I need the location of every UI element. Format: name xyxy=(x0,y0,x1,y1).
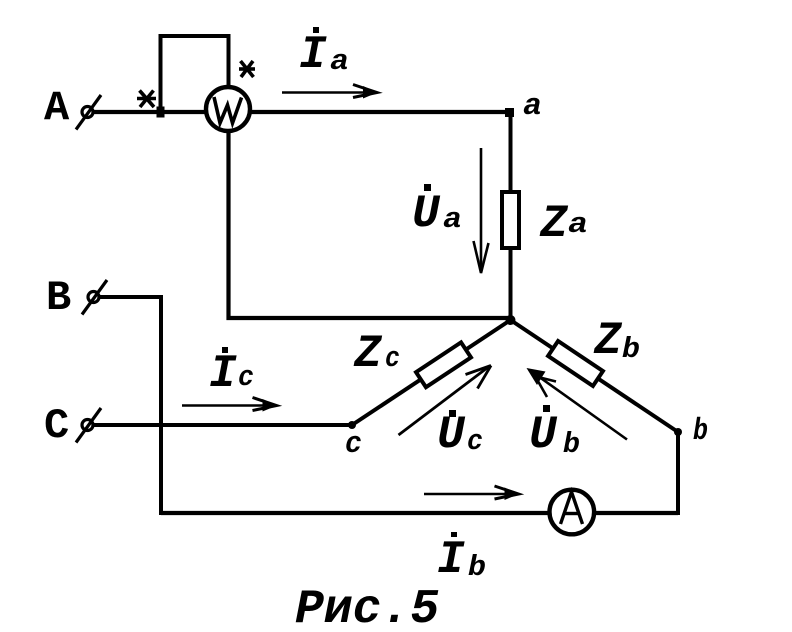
svg-text:U: U xyxy=(412,188,441,240)
label Ia xyxy=(299,27,349,81)
svg-text:I: I xyxy=(299,29,327,81)
wire node b down xyxy=(676,432,680,515)
svg-text:U: U xyxy=(529,409,558,461)
wire Za to neutral xyxy=(509,249,513,321)
terminal B symbol xyxy=(82,280,107,315)
wire node a down to Za xyxy=(509,112,513,192)
svg-text:B: B xyxy=(46,274,71,322)
ammeter A letter xyxy=(561,492,583,524)
label Zc xyxy=(353,328,400,380)
svg-text:Рис.5: Рис.5 xyxy=(295,583,439,632)
bottom rail left of ammeter xyxy=(161,511,548,515)
svg-text:c: c xyxy=(467,425,483,458)
star (polarity mark) left of junction xyxy=(137,91,156,108)
label Ic xyxy=(209,347,254,400)
svg-text:I: I xyxy=(437,534,465,586)
node a corner dot xyxy=(505,108,514,117)
terminal A symbol xyxy=(76,95,101,130)
svg-text:a: a xyxy=(330,45,349,78)
svg-text:I: I xyxy=(209,348,237,400)
label Zb xyxy=(593,315,640,367)
star (polarity mark) at wattmeter top xyxy=(239,61,255,77)
svg-text:C: C xyxy=(44,402,69,450)
svg-text:Z: Z xyxy=(539,198,569,250)
node b dot xyxy=(674,428,682,436)
wire C terminal to node c xyxy=(94,423,352,427)
wattmeter W1 circle xyxy=(206,87,250,131)
svg-text:c: c xyxy=(238,361,254,394)
wire voltage-coil bracket xyxy=(161,36,229,112)
wire B terminal to bottom rail xyxy=(100,297,161,515)
current arrow Ib xyxy=(424,486,519,500)
neutral node dot xyxy=(506,315,516,325)
svg-text:b: b xyxy=(563,428,580,461)
svg-text:A: A xyxy=(44,84,70,132)
voltage arrow Uc xyxy=(399,366,492,436)
svg-text:Z: Z xyxy=(353,328,383,380)
svg-text:b: b xyxy=(693,414,708,449)
label Ua xyxy=(412,184,462,240)
wire neutral to node b (diagonal) xyxy=(511,320,679,432)
label Ub xyxy=(529,405,580,461)
ammeter A1 circle xyxy=(550,490,595,535)
label Za xyxy=(539,198,588,250)
bottom rail right of ammeter xyxy=(595,511,678,515)
impedance Za box xyxy=(502,192,519,248)
svg-text:b: b xyxy=(468,551,486,584)
current arrow Ia xyxy=(282,85,378,99)
svg-text:a: a xyxy=(523,89,542,124)
wire neutral to node c (diagonal) xyxy=(352,320,511,425)
wire wattmeter bottom to neutral xyxy=(229,131,511,318)
label Ib xyxy=(437,532,486,586)
impedance Zb box xyxy=(548,341,603,386)
svg-text:c: c xyxy=(345,427,362,462)
svg-text:Z: Z xyxy=(593,315,623,367)
svg-text:a: a xyxy=(568,208,588,241)
svg-text:c: c xyxy=(385,342,400,375)
voltage arrow Ua xyxy=(474,148,489,273)
current arrow Ic xyxy=(182,398,277,412)
voltage arrow Ub xyxy=(527,368,628,440)
terminal C symbol xyxy=(76,408,101,443)
label Uc xyxy=(437,409,483,461)
svg-text:a: a xyxy=(443,203,462,236)
node c dot xyxy=(348,421,356,429)
junction dot on line A xyxy=(157,107,165,118)
wire wattmeter to node a xyxy=(250,110,511,114)
wattmeter W letter xyxy=(214,97,242,123)
impedance Zc box xyxy=(416,342,471,387)
svg-text:b: b xyxy=(622,333,640,366)
wire A terminal to wattmeter xyxy=(94,110,206,114)
